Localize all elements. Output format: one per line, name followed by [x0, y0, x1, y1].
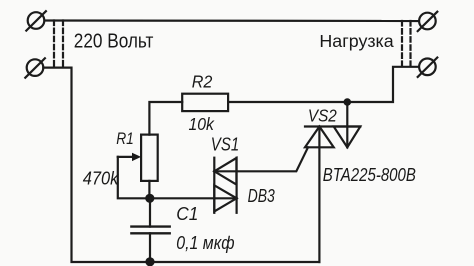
node C junction dot on bottom wire [145, 257, 154, 266]
svg-text:220 Вольт: 220 Вольт [74, 30, 154, 52]
resistor R2 [182, 94, 228, 111]
node A junction dot [344, 98, 352, 106]
wire top net L-in to load [45, 19, 419, 22]
wire neutral: left side and bottom [43, 68, 319, 262]
terminal X2.2 [418, 58, 438, 77]
svg-text:BTA225-800B: BTA225-800B [323, 164, 416, 185]
potentiometer R1 body [141, 135, 158, 181]
triac VS2 right triangle (points down) [334, 127, 361, 148]
diac VS1 left bar [213, 158, 215, 213]
svg-text:0,1 мкф: 0,1 мкф [176, 233, 234, 253]
svg-text:DB3: DB3 [248, 186, 275, 206]
wire R2 right segment [228, 101, 347, 103]
triac VS2 left triangle (points up) [305, 127, 334, 148]
node B junction dot [145, 194, 154, 203]
svg-text:VS2: VS2 [308, 105, 337, 125]
wire load branch to node A [347, 67, 419, 102]
terminal X2.1 [418, 12, 438, 31]
diac VS1 upper triangle (points left) [214, 158, 236, 185]
wire node B to diac VS1 [150, 197, 237, 199]
wire R1 bottom lead [148, 181, 150, 198]
triac VS2 top bar [305, 125, 360, 127]
diac VS1 right bar [236, 158, 238, 213]
capacitor C1 plates [131, 227, 169, 234]
dashed pair right [402, 21, 411, 67]
svg-text:R1: R1 [116, 130, 134, 148]
svg-text:470k: 470k [83, 169, 119, 189]
diac VS1 lower triangle (points right) [214, 185, 236, 211]
wire R2 left segment [149, 102, 182, 135]
svg-text:C1: C1 [176, 204, 198, 224]
capacitor C1 top lead [149, 198, 151, 226]
capacitor C1 bottom lead [149, 233, 151, 262]
svg-text:10k: 10k [189, 114, 216, 134]
potentiometer R1 wiper arrow [118, 153, 141, 161]
wire triac cathode lead down to bottom wire [318, 127, 320, 263]
terminal X1.1 [26, 11, 46, 30]
svg-text:Нагрузка: Нагрузка [319, 31, 394, 51]
svg-text:VS1: VS1 [211, 134, 239, 155]
svg-text:R2: R2 [192, 71, 213, 91]
wire gate from diac to triac [214, 147, 308, 171]
dashed pair left [54, 21, 63, 68]
wire wiper down to node B [118, 157, 148, 198]
terminal X1.2 [25, 58, 45, 77]
wire triac anode lead from node A [346, 102, 348, 147]
